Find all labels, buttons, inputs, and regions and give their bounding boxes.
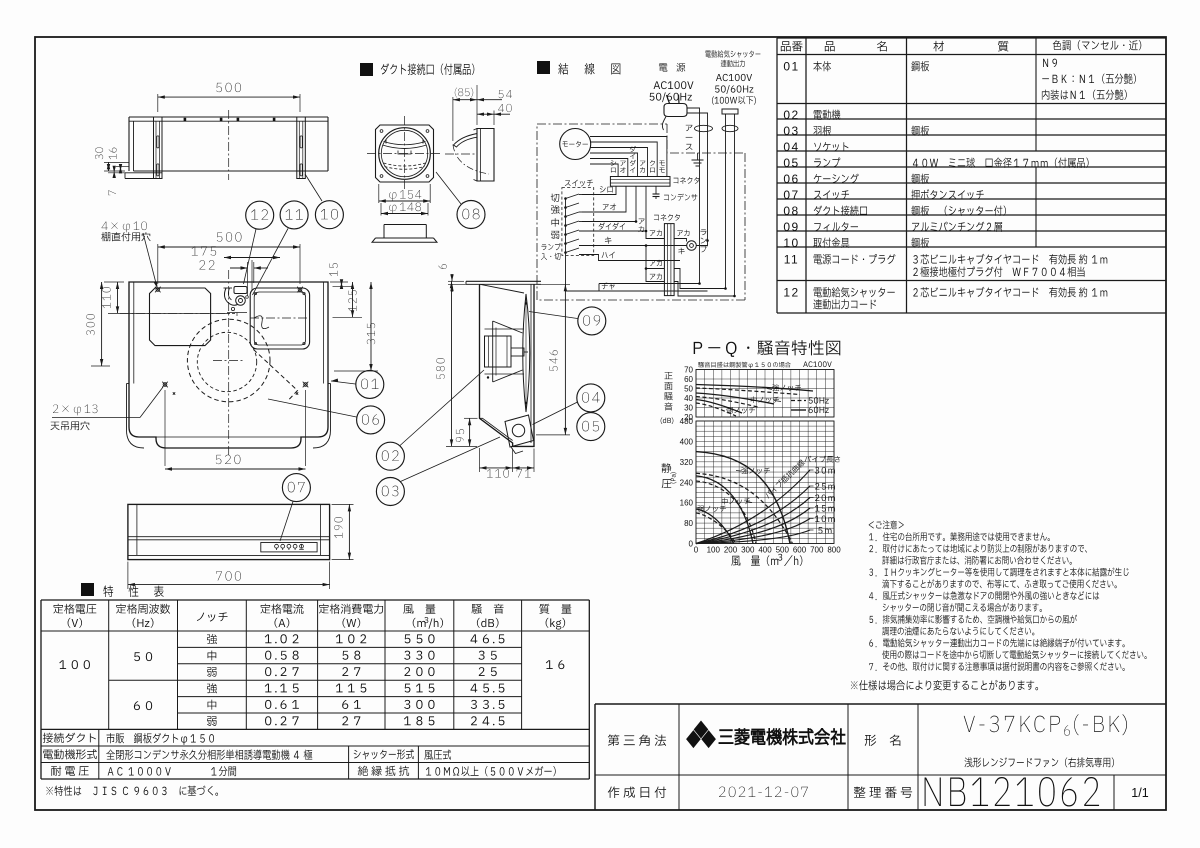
svg-text:480: 480 <box>680 417 694 426</box>
svg-text:05: 05 <box>783 156 799 170</box>
duct section title <box>360 63 373 76</box>
flange outer circle <box>379 128 431 180</box>
orifice plate <box>485 329 525 374</box>
shutter plate side <box>454 134 478 148</box>
bracket dim 30 16 7 <box>104 161 129 163</box>
pipe resistance curves <box>696 470 810 544</box>
earth label アース <box>686 125 693 131</box>
top view dim 110 <box>104 281 124 283</box>
hanger bracket right <box>297 117 306 179</box>
PQ chart axis label 静圧 <box>662 463 672 473</box>
balloon 04 <box>577 384 605 412</box>
svg-text:60: 60 <box>684 375 693 384</box>
connector bar 1 <box>610 177 670 187</box>
creation date <box>719 787 808 798</box>
noise curves <box>696 385 813 392</box>
svg-text:03: 03 <box>783 124 799 138</box>
svg-text:30: 30 <box>684 404 693 413</box>
top view dim 15 right <box>330 281 348 283</box>
side view dim 95 <box>464 417 478 419</box>
svg-text:800: 800 <box>827 546 841 555</box>
unit boundary chain box <box>537 123 667 125</box>
svg-text:80: 80 <box>684 519 693 528</box>
earth lead from plug <box>662 117 666 131</box>
PQ chart grid <box>695 421 697 544</box>
ceiling hole marks 2xphi13 <box>163 383 167 387</box>
duct pipe detail top <box>234 287 247 294</box>
svg-text:100: 100 <box>707 546 721 555</box>
balloon 01 <box>356 370 384 398</box>
side view body outline <box>480 284 535 446</box>
company name 三菱電機株式会社 <box>719 728 845 745</box>
pipe length label <box>804 456 840 463</box>
document number NB121062 <box>925 777 1099 806</box>
label 4xphi10 <box>102 221 147 232</box>
connector2 lower wires <box>646 246 664 269</box>
model description 浅形レンジフードファン <box>965 757 1114 767</box>
side view dim 6 <box>448 280 464 282</box>
mounting hole marks <box>156 288 160 292</box>
motor モーター <box>560 129 591 160</box>
side view dim 580 <box>446 445 477 447</box>
svg-text:200: 200 <box>724 546 738 555</box>
svg-text:01: 01 <box>783 60 799 74</box>
Mitsubishi three-diamond logo <box>694 721 709 739</box>
balloon 09 <box>578 307 606 335</box>
parts table header text <box>781 41 803 51</box>
motor lead wires <box>590 137 667 177</box>
title block 整理番号 <box>854 787 912 799</box>
note 仕様変更 <box>851 680 1038 690</box>
fan scroll dashed circle <box>187 319 270 402</box>
pipe resistance curve label <box>764 459 806 499</box>
bracket rail tabs <box>184 118 187 121</box>
leader to balloon 08 <box>436 172 461 204</box>
front view dim 190 <box>332 503 354 505</box>
casing top slope <box>480 284 524 293</box>
top view lamp opening rounded square <box>150 288 211 346</box>
balloon 10 <box>315 201 343 229</box>
spec table grid <box>40 600 42 779</box>
fan scroll tongue <box>254 350 298 400</box>
flange side view <box>477 129 494 182</box>
power cord to unit <box>687 108 700 131</box>
shutter open arc <box>453 144 489 174</box>
top view filter opening <box>250 288 309 349</box>
PQ chart x axis label 風量 <box>731 555 778 565</box>
top view inner edge lines <box>133 282 135 384</box>
spec table data text <box>59 660 90 669</box>
top view center lines <box>228 270 230 456</box>
svg-text:240: 240 <box>680 478 694 487</box>
title block 形名 <box>865 735 901 746</box>
connector bar 2 vertical <box>664 224 674 296</box>
top view dim 300 <box>91 365 110 367</box>
svg-text:12: 12 <box>783 286 799 300</box>
red wire from connector to lamp circuit <box>645 186 647 238</box>
flange center lines <box>367 153 442 155</box>
flange side center line <box>445 153 477 155</box>
dims 85 54 40 <box>452 97 454 141</box>
flange inner circle <box>381 130 427 176</box>
parts table 品番/品名/材質/色調 <box>777 37 1166 39</box>
svg-text:06: 06 <box>783 172 799 186</box>
PQ curve labels <box>741 467 770 474</box>
bracket left end cap <box>128 117 130 171</box>
balloon 07 <box>282 474 310 502</box>
power plug <box>664 104 687 117</box>
title block 第三角法 <box>608 734 666 746</box>
svg-text:10: 10 <box>783 236 799 250</box>
side view top lip <box>466 280 541 282</box>
fan blade side <box>523 294 530 412</box>
balloon 12 <box>246 201 274 229</box>
mounting bracket bar <box>129 116 328 118</box>
flange bottom profile <box>384 225 426 239</box>
spec table header text <box>53 604 96 614</box>
motor and mount <box>485 336 512 367</box>
leader 12 to pipe <box>244 229 257 284</box>
balloon 08 <box>457 201 485 229</box>
svg-text:11: 11 <box>784 253 799 267</box>
svg-text:40: 40 <box>684 394 693 403</box>
top view dim 520 <box>164 390 166 466</box>
power wires into unit <box>699 131 701 283</box>
noise chart axis label 正面騒音 <box>664 372 672 379</box>
flange dim phi154 <box>378 184 380 203</box>
lamp ランプ <box>687 241 697 251</box>
noise chart legend <box>791 400 806 402</box>
top view dim 500 <box>157 244 159 284</box>
top view outline <box>129 282 328 448</box>
lamp circuit wires <box>646 231 664 239</box>
shutter output wires <box>725 131 727 289</box>
cord grommet shutter <box>722 125 738 131</box>
wires below connector bar <box>582 186 616 194</box>
flange corner holes <box>380 130 383 133</box>
svg-text:04: 04 <box>783 140 799 154</box>
ground symbol <box>697 153 699 160</box>
balloon 03 <box>376 478 404 506</box>
wire color labels vertical above connector <box>611 160 616 165</box>
capacitor コンデンサ <box>655 186 657 194</box>
svg-text:1/1: 1/1 <box>1131 786 1148 800</box>
flange shutter detail <box>383 145 427 149</box>
svg-text:07: 07 <box>783 188 799 202</box>
front view switch panel <box>261 543 317 552</box>
svg-text:600: 600 <box>793 546 807 555</box>
svg-text:400: 400 <box>680 437 694 446</box>
bottom wires <box>566 290 708 292</box>
title block 作成日付 <box>608 786 666 798</box>
svg-text:300: 300 <box>741 546 755 555</box>
svg-text:70: 70 <box>684 366 693 375</box>
power source labels <box>659 63 685 72</box>
top view dim 125 <box>333 316 363 318</box>
wiring diagram title 結線図 <box>537 61 550 74</box>
svg-text:02: 02 <box>783 108 799 122</box>
model name V-37KCP6(-BK) <box>964 716 1060 733</box>
cord grommet power <box>695 125 713 131</box>
spec table bottom rows text <box>43 733 96 743</box>
svg-text:09: 09 <box>783 220 799 234</box>
switch pole labels <box>551 194 559 203</box>
bracket center line <box>228 110 230 180</box>
front view dim 700 <box>127 562 129 589</box>
title block frame <box>595 703 1166 705</box>
bracket left foot <box>125 172 162 174</box>
balloon 11 <box>280 201 308 229</box>
balloon 02 <box>376 442 404 470</box>
fan PQ curves <box>696 452 790 544</box>
svg-text:500: 500 <box>776 546 790 555</box>
switch contacts <box>564 197 567 200</box>
leader to balloon 10 <box>305 174 322 201</box>
balloon 06 <box>357 406 385 434</box>
notes ご注意 text block <box>869 521 904 530</box>
noise chart header notes <box>698 362 791 368</box>
svg-text:400: 400 <box>758 546 772 555</box>
switch output wires <box>579 194 582 196</box>
side view dims 110 71 <box>479 448 481 472</box>
svg-text:50: 50 <box>684 385 693 394</box>
svg-text:08: 08 <box>783 204 799 218</box>
balloon 05 <box>577 413 605 441</box>
top view dim 175 <box>224 257 280 259</box>
hanger bracket left <box>154 117 163 179</box>
label 2xphi13 <box>53 404 97 415</box>
spec table note JIS <box>46 786 218 796</box>
top view dim 22 <box>247 262 249 296</box>
svg-text:700: 700 <box>810 546 824 555</box>
side view dim 546 <box>536 283 570 285</box>
P-Q chart title <box>694 340 841 357</box>
noise curve labels <box>772 384 801 391</box>
shutter output cord terminal bar <box>722 109 738 114</box>
top view dim 315 <box>334 370 378 372</box>
leader 11 to pipe <box>253 229 289 296</box>
shutter output labels <box>705 50 760 57</box>
svg-text:0: 0 <box>694 546 699 555</box>
flange dim phi148 <box>380 203 382 216</box>
noise chart grid <box>695 370 697 418</box>
outlet shutter box <box>505 415 534 447</box>
front view outline <box>128 504 330 559</box>
svg-text:320: 320 <box>680 458 694 467</box>
svg-text:160: 160 <box>680 499 694 508</box>
spec table title 特性表 <box>81 583 94 596</box>
flange front square <box>376 125 434 182</box>
switch box dashed <box>562 188 594 256</box>
bellmouth cone <box>493 321 523 382</box>
bracket dim 500 <box>157 94 159 112</box>
